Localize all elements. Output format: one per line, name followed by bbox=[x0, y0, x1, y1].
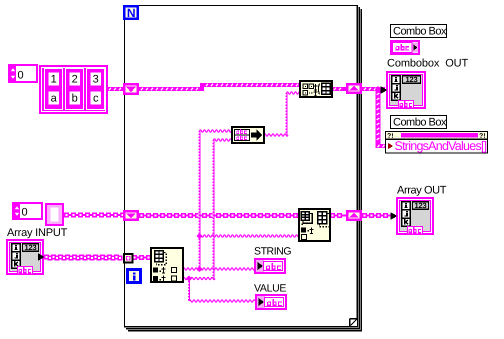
svg-text:N: N bbox=[127, 6, 136, 20]
svg-text:0: 0 bbox=[18, 70, 24, 82]
svg-text:2: 2 bbox=[72, 74, 78, 86]
svg-text:a: a bbox=[51, 93, 58, 105]
svg-text:STRING: STRING bbox=[254, 246, 291, 258]
svg-text:?!: ?! bbox=[387, 133, 394, 140]
svg-text:123: 123 bbox=[406, 75, 418, 84]
svg-text:StringsAndValues[]: StringsAndValues[] bbox=[395, 139, 487, 153]
svg-text:Array OUT: Array OUT bbox=[397, 185, 447, 197]
svg-text:123: 123 bbox=[25, 243, 37, 252]
svg-text:Array INPUT: Array INPUT bbox=[7, 227, 68, 239]
svg-text:b: b bbox=[72, 93, 78, 105]
svg-text:Combobox OUT: Combobox OUT bbox=[387, 58, 468, 70]
svg-text:Combo Box: Combo Box bbox=[393, 26, 447, 38]
svg-text:Combo Box: Combo Box bbox=[393, 117, 447, 129]
svg-text:1: 1 bbox=[51, 74, 57, 86]
svg-text:VALUE: VALUE bbox=[254, 283, 286, 295]
svg-text:c: c bbox=[93, 93, 99, 105]
svg-text:3: 3 bbox=[93, 74, 99, 86]
svg-text:0: 0 bbox=[22, 207, 28, 219]
svg-text:123: 123 bbox=[415, 201, 427, 210]
